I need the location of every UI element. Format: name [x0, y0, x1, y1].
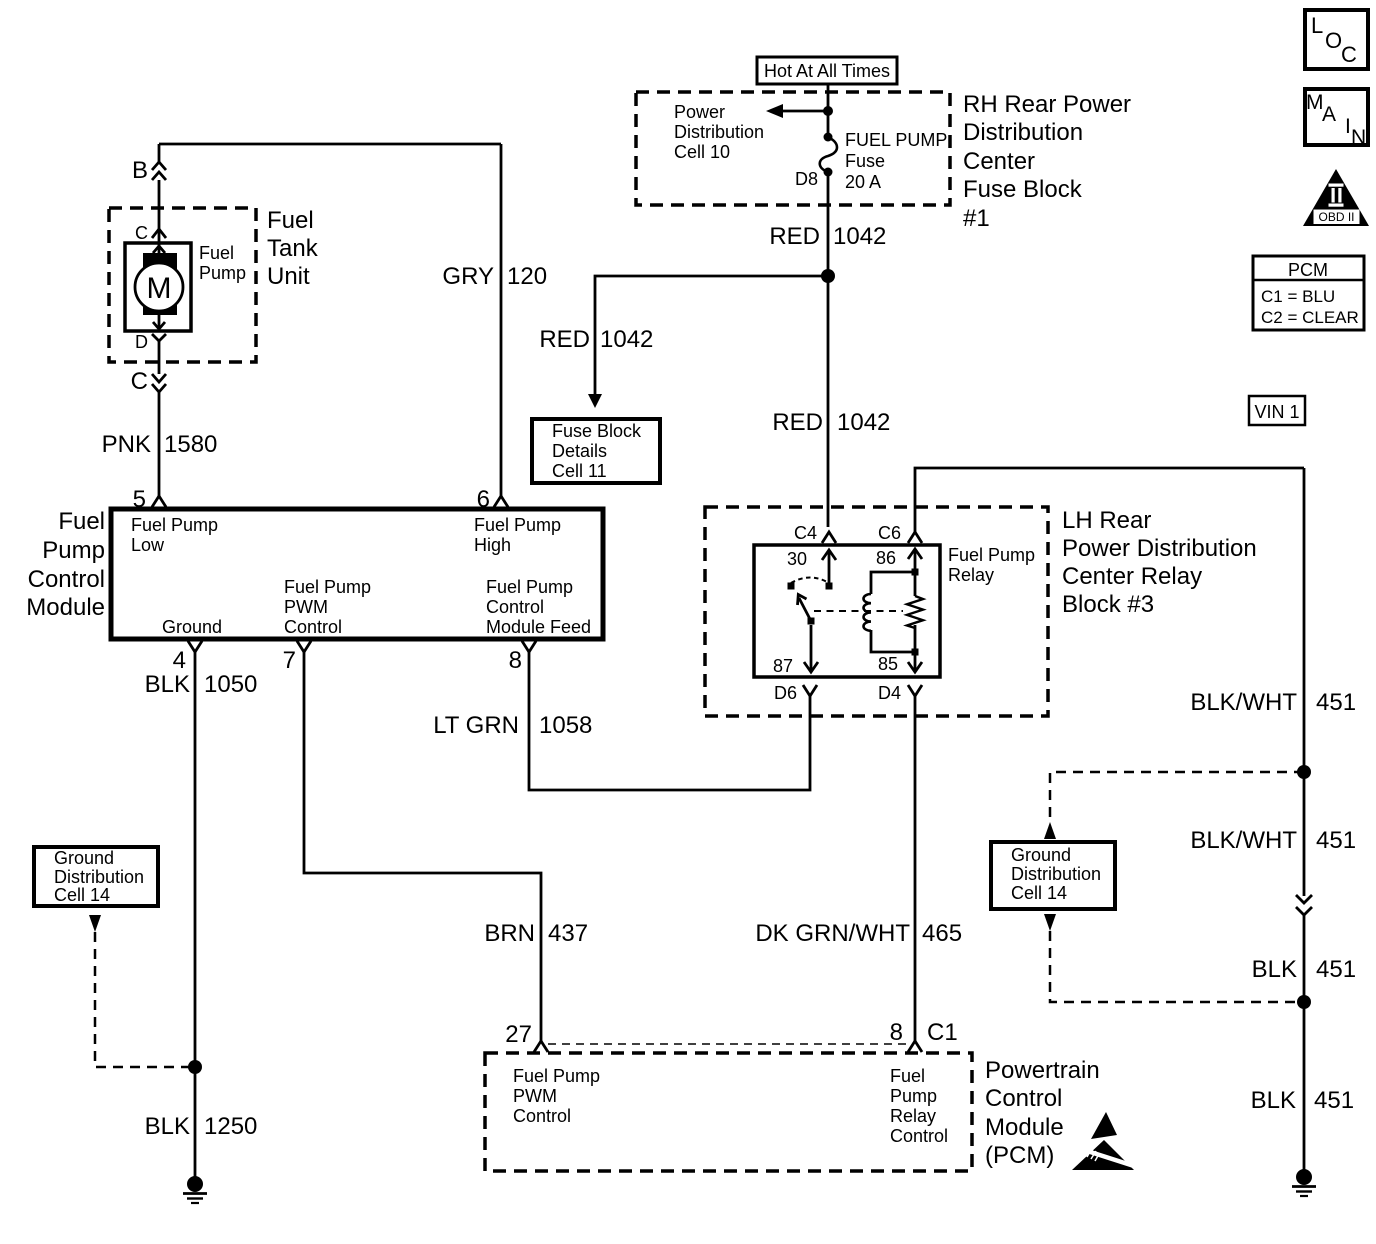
svg-text:1050: 1050: [204, 671, 257, 698]
svg-text:PWM: PWM: [284, 597, 328, 617]
label RED 1042 (main, lower): [772, 409, 890, 436]
svg-text:1058: 1058: [539, 712, 592, 739]
svg-text:Fuel Pump: Fuel Pump: [513, 1066, 600, 1086]
connector in-line on right wire (double chevron): [1296, 895, 1312, 915]
junction: RED 1042 splice: [821, 269, 835, 283]
wire: hot feed down into fuse block: [827, 84, 830, 137]
svg-text:GRY: GRY: [442, 263, 494, 290]
label Powertrain Control Module (PCM): [985, 1057, 1100, 1169]
svg-text:Fuel Pump: Fuel Pump: [284, 577, 371, 597]
svg-text:Powertrain: Powertrain: [985, 1057, 1100, 1084]
label Fuel Pump (inside tank unit): [199, 243, 246, 283]
svg-text:O: O: [1325, 28, 1342, 53]
svg-text:Distribution: Distribution: [1011, 864, 1101, 884]
svg-text:Distribution: Distribution: [963, 119, 1083, 146]
svg-text:Distribution: Distribution: [674, 122, 764, 142]
svg-text:C: C: [135, 223, 148, 243]
svg-text:Tank: Tank: [267, 235, 319, 262]
svg-text:20 A: 20 A: [845, 172, 881, 192]
label PNK 1580: [102, 431, 218, 458]
relay pin 86 arrow: [876, 548, 922, 576]
svg-text:Ground: Ground: [162, 617, 222, 637]
svg-text:DK GRN/WHT: DK GRN/WHT: [755, 920, 910, 947]
svg-text:M: M: [1306, 91, 1324, 114]
svg-text:1042: 1042: [600, 326, 653, 353]
powertrain control module PCM dashed box: [485, 1053, 972, 1171]
svg-text:Fuel Pump: Fuel Pump: [131, 515, 218, 535]
label LT GRN 1058: [433, 712, 592, 739]
svg-text:High: High: [474, 535, 511, 555]
svg-text:Pump: Pump: [199, 263, 246, 283]
svg-text:Fuse Block: Fuse Block: [963, 176, 1083, 203]
svg-text:Pump: Pump: [42, 537, 105, 564]
label Fuel Tank Unit: [267, 207, 319, 290]
pin label Fuel Pump Low: [131, 515, 218, 555]
svg-text:Power: Power: [674, 102, 725, 122]
label Fuel Pump Control Module (left of box): [26, 508, 105, 621]
LH rear power distribution center relay block dashed box: [705, 507, 1048, 716]
svg-text:RED: RED: [769, 223, 820, 250]
svg-text:C: C: [1341, 42, 1357, 67]
ground distribution cell 14 box (right): [991, 842, 1115, 909]
wire PNK 1580 to pin 5: [158, 392, 161, 496]
arrow into right ground distribution box (up): [1044, 822, 1056, 839]
legend VIN 1 box: [1249, 396, 1305, 425]
junction: left ground splice: [188, 1060, 202, 1074]
svg-text:30: 30: [787, 549, 807, 569]
svg-text:LH Rear: LH Rear: [1062, 507, 1151, 534]
svg-text:M: M: [147, 272, 172, 305]
svg-text:BLK: BLK: [1252, 956, 1297, 983]
dashed wire: right ground distribution to lower splice: [1050, 931, 1304, 1002]
svg-text:N: N: [1351, 126, 1366, 149]
wire: relay C6 up and right to BLK/WHT 451: [915, 468, 1304, 532]
svg-text:451: 451: [1314, 1087, 1354, 1114]
svg-text:Module: Module: [985, 1114, 1064, 1141]
svg-text:D: D: [135, 332, 148, 352]
svg-text:BLK/WHT: BLK/WHT: [1190, 827, 1297, 854]
svg-text:A: A: [1322, 103, 1336, 126]
pin D8 of fuse block: [795, 169, 818, 189]
fuel pump motor M1 (armature and M circle): [135, 253, 183, 315]
svg-text:Ground: Ground: [54, 848, 114, 868]
relay pin 30 arrow: [787, 549, 836, 590]
svg-text:VIN 1: VIN 1: [1254, 402, 1299, 422]
svg-text:87: 87: [773, 656, 793, 676]
svg-text:PNK: PNK: [102, 431, 151, 458]
svg-text:Control: Control: [513, 1106, 571, 1126]
svg-text:Ground: Ground: [1011, 845, 1071, 865]
wire DK GRN/WHT 465: relay D4 to PCM: [914, 696, 917, 1041]
label RED 1042 (branch): [539, 326, 653, 353]
svg-text:Control: Control: [890, 1126, 948, 1146]
svg-text:Relay: Relay: [890, 1106, 936, 1126]
svg-text:Power Distribution: Power Distribution: [1062, 535, 1257, 562]
pin D6 of relay block: [774, 683, 817, 703]
fuse F1 FUEL PUMP 20A: [820, 133, 837, 177]
svg-text:PWM: PWM: [513, 1086, 557, 1106]
svg-text:Control: Control: [985, 1085, 1062, 1112]
svg-text:7: 7: [283, 647, 296, 674]
wire BLK 451 right side (lower): [1303, 915, 1306, 1177]
svg-text:Fuel: Fuel: [890, 1066, 925, 1086]
svg-text:I: I: [1345, 115, 1351, 138]
svg-text:Cell 10: Cell 10: [674, 142, 730, 162]
wire BLK/WHT 451 right side (upper): [1303, 468, 1306, 896]
label LH Rear Power Distribution Center Relay Block #3: [1062, 507, 1257, 618]
svg-text:Fuel: Fuel: [267, 207, 314, 234]
svg-text:1042: 1042: [833, 223, 886, 250]
pin 7 (PWM Control): [283, 641, 311, 674]
svg-text:B: B: [132, 157, 148, 184]
junction: right splice lower: [1297, 995, 1311, 1009]
svg-text:1580: 1580: [164, 431, 217, 458]
svg-text:RH Rear Power: RH Rear Power: [963, 91, 1131, 118]
RH rear power distribution center fuse block dashed box: [636, 92, 950, 205]
svg-text:Details: Details: [552, 441, 607, 461]
relay pin 87 arrow: [773, 625, 818, 676]
label BLK 1250: [145, 1113, 258, 1140]
svg-text:Cell 11: Cell 11: [552, 461, 607, 481]
label RED 1042 (above splice): [769, 223, 886, 250]
svg-text:LT GRN: LT GRN: [433, 712, 519, 739]
label RH Rear Power Distribution Center Fuse Block #1: [963, 91, 1131, 232]
svg-text:Module Feed: Module Feed: [486, 617, 591, 637]
svg-text:FUEL PUMP: FUEL PUMP: [845, 130, 947, 150]
pin D4 of relay block: [878, 683, 922, 703]
svg-text:C1 = BLU: C1 = BLU: [1261, 287, 1335, 306]
pin 8 C1 of PCM: [890, 1019, 958, 1052]
svg-text:465: 465: [922, 920, 962, 947]
svg-text:Fuel Pump: Fuel Pump: [948, 545, 1035, 565]
svg-text:D8: D8: [795, 169, 818, 189]
svg-text:Pump: Pump: [890, 1086, 937, 1106]
wire BLK 1050/1250 pin 4 to ground: [194, 652, 197, 1185]
wire GRY 120 from top feed to pin 6: [500, 144, 503, 496]
ESD warning symbol: [1072, 1112, 1134, 1170]
svg-text:Block #3: Block #3: [1062, 591, 1154, 618]
svg-text:Center: Center: [963, 148, 1035, 175]
label Fuel Pump Relay: [948, 545, 1035, 585]
pin C4 of relay block: [794, 523, 836, 543]
svg-text:C4: C4: [794, 523, 817, 543]
svg-text:#1: #1: [963, 205, 990, 232]
svg-text:BRN: BRN: [484, 920, 535, 947]
svg-text:85: 85: [878, 654, 898, 674]
svg-text:1042: 1042: [837, 409, 890, 436]
fuel pump control module U1 box: [111, 509, 603, 639]
wire branch to fuse block details: [588, 276, 828, 408]
svg-text:451: 451: [1316, 689, 1356, 716]
arrow into motor (top): [153, 246, 165, 255]
arrow from right ground distribution box (down): [1044, 914, 1056, 931]
junction: right splice upper: [1297, 765, 1311, 779]
fuse block details cell 11 box: [532, 419, 660, 483]
label FUEL PUMP Fuse 20 A: [845, 130, 947, 192]
svg-text:Fuel Pump: Fuel Pump: [486, 577, 573, 597]
svg-text:Fuel Pump: Fuel Pump: [474, 515, 561, 535]
svg-text:C6: C6: [878, 523, 901, 543]
wire: D down out of tank unit: [158, 341, 161, 374]
pin C6 of relay block: [878, 523, 922, 543]
Hot At All Times box: [757, 57, 897, 84]
label BRN 437: [484, 920, 588, 947]
svg-text:RED: RED: [772, 409, 823, 436]
svg-text:Control: Control: [486, 597, 544, 617]
svg-text:86: 86: [876, 548, 896, 568]
connector B (in-line double chevron): [132, 144, 166, 184]
svg-text:(PCM): (PCM): [985, 1142, 1054, 1169]
label BLK 1050: [145, 671, 258, 698]
svg-text:451: 451: [1316, 827, 1356, 854]
svg-text:Relay: Relay: [948, 565, 994, 585]
label Power Distribution Cell 10: [674, 102, 764, 162]
pin label Fuel Pump PWM Control (PCM): [513, 1066, 600, 1126]
svg-text:L: L: [1311, 13, 1323, 38]
svg-text:Control: Control: [28, 566, 105, 593]
pin 5 (Fuel Pump Low): [133, 486, 166, 513]
svg-text:PCM: PCM: [1288, 260, 1328, 280]
pin label Fuel Pump Relay Control (PCM): [890, 1066, 948, 1146]
label GRY 120: [442, 263, 547, 290]
junction at power distribution branch: [823, 106, 833, 116]
label BLK/WHT 451 (upper): [1190, 689, 1356, 716]
legend OBD II triangle: [1303, 169, 1369, 226]
arrow from left ground distribution box (down): [89, 915, 101, 932]
wire RED 1042 from fuse to relay C4: [827, 172, 830, 527]
relay contact dashed arc: [791, 578, 829, 584]
svg-text:8: 8: [509, 647, 522, 674]
fuel tank unit dashed box: [109, 208, 256, 362]
relay fixed contact (left): [788, 583, 795, 590]
svg-text:C: C: [131, 368, 148, 395]
connector C (in-line double chevron below tank): [131, 368, 166, 395]
wire: B down into fuel tank unit: [158, 180, 161, 246]
ground distribution cell 14 box (left): [34, 847, 158, 906]
svg-text:27: 27: [505, 1021, 532, 1048]
relay K1 box: [754, 545, 940, 677]
svg-text:451: 451: [1316, 956, 1356, 983]
svg-text:120: 120: [507, 263, 547, 290]
pin label Fuel Pump Control Module Feed: [486, 577, 591, 637]
relay suppression resistor R1: [907, 572, 923, 656]
svg-text:Fuel: Fuel: [58, 508, 105, 535]
arrow to Power Distribution Cell 10: [766, 104, 828, 118]
node C (fuel tank unit pin C): [135, 223, 166, 243]
fuel pump motor M1 (outer box): [125, 243, 191, 331]
pin label Fuel Pump PWM Control: [284, 577, 371, 637]
relay actuator dashed link: [814, 610, 903, 612]
pin 4 (Ground): [173, 641, 202, 674]
svg-text:C2 = CLEAR: C2 = CLEAR: [1261, 308, 1359, 327]
pin 8 (Module Feed): [509, 641, 536, 674]
ground G1 (left ground symbol): [183, 1176, 207, 1203]
legend PCM connector colors box: [1253, 256, 1364, 330]
svg-text:1250: 1250: [204, 1113, 257, 1140]
legend MAIN box: [1305, 89, 1368, 149]
svg-text:BLK: BLK: [145, 671, 190, 698]
svg-text:D6: D6: [774, 683, 797, 703]
label DK GRN/WHT 465: [755, 920, 962, 947]
svg-text:Hot At All Times: Hot At All Times: [764, 61, 890, 81]
svg-text:BLK: BLK: [1251, 1087, 1296, 1114]
svg-text:Fuel: Fuel: [199, 243, 234, 263]
label BLK/WHT 451 (mid): [1190, 827, 1356, 854]
label BLK 451 (upper of lower pair): [1252, 956, 1356, 983]
svg-text:437: 437: [548, 920, 588, 947]
svg-text:Module: Module: [26, 594, 105, 621]
svg-text:Distribution: Distribution: [54, 867, 144, 887]
relay switch arm SW: [798, 595, 815, 625]
dashed link pin 27 to pin 8 (PCM internal): [548, 1043, 908, 1045]
svg-text:Unit: Unit: [267, 263, 310, 290]
svg-text:8: 8: [890, 1019, 903, 1046]
svg-text:BLK: BLK: [145, 1113, 190, 1140]
arrow out of motor (bottom): [153, 313, 165, 329]
pin label Ground: [162, 617, 222, 637]
relay coil L1: [864, 572, 915, 652]
wire BRN 437: pin 7 to PCM pin 27: [304, 652, 541, 1041]
svg-text:Cell 14: Cell 14: [54, 885, 110, 905]
svg-text:Control: Control: [284, 617, 342, 637]
pin 6 (Fuel Pump High): [477, 486, 508, 513]
pin label Fuel Pump High: [474, 515, 561, 555]
ground G2 (right ground symbol): [1292, 1169, 1316, 1196]
svg-text:Fuse: Fuse: [845, 151, 885, 171]
wire LT GRN 1058: pin 8 to relay D6: [529, 652, 810, 790]
svg-text:OBD II: OBD II: [1318, 210, 1354, 224]
svg-text:Low: Low: [131, 535, 165, 555]
wire: top horizontal feed from connector B to GRY 120 drop: [159, 143, 501, 146]
svg-text:C1: C1: [927, 1019, 958, 1046]
svg-text:RED: RED: [539, 326, 590, 353]
label BLK 451 (bottom): [1251, 1087, 1354, 1114]
svg-text:Center Relay: Center Relay: [1062, 563, 1202, 590]
svg-text:BLK/WHT: BLK/WHT: [1190, 689, 1297, 716]
pin 27 (PCM Fuel Pump PWM Control): [505, 1021, 548, 1052]
legend LOC box: [1305, 10, 1368, 69]
node D (fuel tank unit pin D): [135, 332, 166, 352]
svg-text:Cell 14: Cell 14: [1011, 883, 1067, 903]
dashed wire: left ground distribution to splice: [95, 932, 195, 1067]
dashed wire: splice to right ground distribution (upper): [1050, 772, 1304, 822]
relay pin 85 arrow: [878, 654, 922, 674]
svg-text:Fuse Block: Fuse Block: [552, 421, 642, 441]
svg-text:4: 4: [173, 647, 186, 674]
svg-text:D4: D4: [878, 683, 901, 703]
